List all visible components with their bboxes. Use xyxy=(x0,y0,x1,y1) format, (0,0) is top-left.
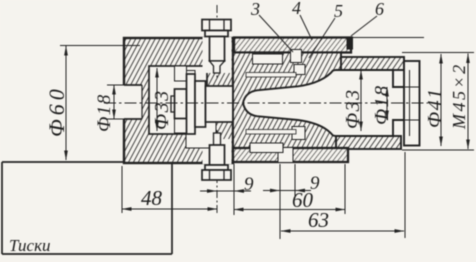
right section bottom wall hatched xyxy=(336,136,401,149)
dimension 60 xyxy=(234,209,345,211)
collet slit lower white xyxy=(246,130,296,135)
collet lower step xyxy=(175,119,187,134)
left block bore hole Ф18 white xyxy=(123,85,143,119)
dimension 9 first xyxy=(200,190,251,192)
svg-text:Тиски: Тиски xyxy=(9,236,51,255)
top bolt centerline xyxy=(216,5,218,78)
sleeve upper white band xyxy=(253,54,283,64)
top bolt clearance white xyxy=(203,37,232,73)
right section top wall hatched xyxy=(341,57,404,70)
dimension Ф18 left xyxy=(107,85,126,119)
mandrel washer xyxy=(187,74,196,134)
dimension Ф41 xyxy=(402,53,474,151)
bottom bolt clearance white xyxy=(203,139,232,164)
bottom bolt washer xyxy=(205,165,228,170)
collet slit upper white xyxy=(246,73,296,78)
bottom bolt shank xyxy=(210,145,225,165)
sleeve lower white band xyxy=(250,143,283,153)
right end cap xyxy=(404,61,420,146)
top bolt shank xyxy=(210,37,225,62)
tapered bore cavity (bullet) white xyxy=(243,70,408,136)
svg-text:Ф18: Ф18 xyxy=(94,93,115,132)
top plate end screw dark xyxy=(347,37,354,50)
svg-text:Ф33: Ф33 xyxy=(342,88,364,129)
svg-text:3: 3 xyxy=(250,0,260,19)
dimension Ф33 left (in window) xyxy=(156,68,158,131)
svg-text:Ф60: Ф60 xyxy=(44,85,69,137)
dimension Ф33 right xyxy=(360,70,362,131)
left fixture block hatched xyxy=(124,38,233,163)
dimension 9 second xyxy=(263,190,311,192)
dimension Ф18 right xyxy=(386,87,388,120)
mandrel spacer xyxy=(195,81,206,127)
bottom bolt tip xyxy=(214,133,221,145)
svg-text:5: 5 xyxy=(334,1,343,21)
svg-text:48: 48 xyxy=(141,186,163,210)
bottom plate slot white xyxy=(278,148,293,163)
bottom bolt hex head xyxy=(202,170,231,180)
svg-text:М45×2: М45×2 xyxy=(449,62,469,130)
top clamp plate hatched xyxy=(234,38,351,53)
small pin upper white xyxy=(294,65,305,75)
bottom bolt centerline xyxy=(216,130,218,213)
end cap inner line xyxy=(409,70,411,136)
dimension М45x2 xyxy=(467,54,469,150)
svg-text:Ф18: Ф18 xyxy=(371,84,393,125)
dimension 63 xyxy=(281,230,404,232)
svg-text:63: 63 xyxy=(308,208,329,232)
collet upper steps xyxy=(175,66,187,81)
end cap bore lines xyxy=(404,86,420,88)
key item5 white xyxy=(291,50,302,63)
small pin lower white xyxy=(292,127,305,140)
vise body (Тиски) outline xyxy=(2,162,238,254)
top bolt tip xyxy=(210,61,225,73)
svg-text:9: 9 xyxy=(244,174,254,195)
svg-text:Ф41: Ф41 xyxy=(424,87,446,128)
top bolt hex head xyxy=(202,20,231,31)
mandrel shoulder xyxy=(206,86,234,122)
extension line from plate top xyxy=(353,37,424,39)
left block window Ф33 white xyxy=(149,66,207,134)
dimension Ф60 xyxy=(60,46,140,161)
svg-text:Ф33: Ф33 xyxy=(151,89,173,130)
lower mechanism cavity white xyxy=(186,121,216,148)
main body mid section hatched xyxy=(233,53,341,149)
main axis centerline xyxy=(104,102,428,104)
bottom extension lines xyxy=(122,152,405,239)
top bolt washer xyxy=(205,31,228,37)
mandrel nut in window xyxy=(171,96,175,112)
dimension 48 xyxy=(122,208,217,210)
bottom clamp plate hatched xyxy=(233,148,348,162)
